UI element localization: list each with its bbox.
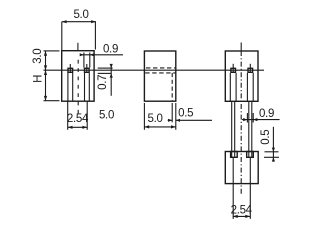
dimension 3.0 and H left <box>32 49 60 101</box>
dimension 0.9 rear lead width <box>242 108 280 123</box>
pin 2 lead <box>85 73 90 101</box>
dimension 2.54 front pins <box>67 101 89 130</box>
svg-text:5.0: 5.0 <box>73 9 88 21</box>
long section line through pin centers <box>44 69 265 71</box>
svg-text:H: H <box>33 75 45 83</box>
svg-text:0.9: 0.9 <box>103 44 118 56</box>
pin 1 square <box>68 64 73 73</box>
side view body outline <box>144 51 175 101</box>
floating label 5.0 (front view depth) <box>99 110 114 122</box>
side view hidden lead <box>171 73 173 101</box>
svg-text:0.7: 0.7 <box>97 75 109 90</box>
bottom view pin 2 square <box>247 152 254 158</box>
svg-text:5.0: 5.0 <box>99 110 114 122</box>
svg-text:2.54: 2.54 <box>67 113 89 125</box>
dimension 5.0 side view <box>144 103 175 130</box>
svg-text:5.0: 5.0 <box>148 113 163 125</box>
front view centerline <box>77 43 79 114</box>
dimension 2.54 bottom view <box>231 204 253 218</box>
bottom view pin 1 extension <box>232 157 234 219</box>
dimension 0.9 top-left (pin width) <box>80 44 123 68</box>
rear view body outline <box>225 51 258 101</box>
rear pin 2 channel <box>247 73 253 101</box>
svg-text:0.5: 0.5 <box>260 130 272 145</box>
dimension 0.7 (pin height) <box>97 64 113 96</box>
rear pin 2 square <box>248 64 253 73</box>
rear view centerline <box>240 43 242 196</box>
svg-text:2.54: 2.54 <box>231 204 253 216</box>
svg-text:0.9: 0.9 <box>259 108 274 120</box>
bottom view pin 2 extension <box>249 157 251 219</box>
svg-text:3.0: 3.0 <box>32 49 44 64</box>
svg-text:0.5: 0.5 <box>178 108 193 120</box>
dimension 0.5 bottom view pin depth <box>260 127 279 162</box>
side view hidden pin top edge <box>146 67 175 69</box>
rear pin 1 square <box>231 64 236 73</box>
front view body outline <box>62 51 94 101</box>
rear pin 1 lead <box>232 101 235 157</box>
pin 1 lead <box>68 73 73 101</box>
bottom view pin 1 square <box>231 152 238 158</box>
dimension 0.5 side view lead <box>168 103 212 122</box>
rear pin 2 lead <box>249 101 252 157</box>
rear pin 1 channel <box>230 73 236 101</box>
side view hidden pin bottom edge <box>145 72 175 74</box>
pin 2 square <box>85 64 90 73</box>
bottom view body outline <box>225 152 258 184</box>
dimension 5.0 top <box>62 9 96 51</box>
